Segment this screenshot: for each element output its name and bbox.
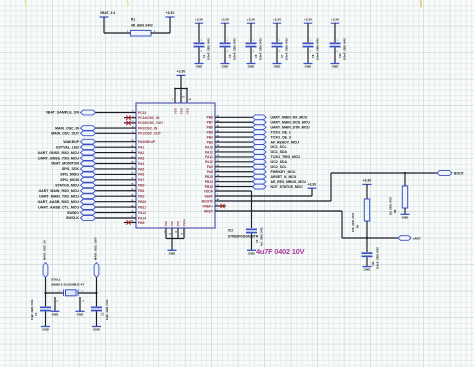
svg-text:STATUS_MCU: STATUS_MCU bbox=[55, 184, 79, 188]
svg-text:UART_MAIN_DTR_MCU: UART_MAIN_DTR_MCU bbox=[271, 125, 310, 129]
wire bbox=[96, 179, 137, 181]
port TCXO_OE_1 bbox=[253, 130, 267, 135]
svg-text:SWCLK: SWCLK bbox=[66, 216, 79, 220]
svg-text:PA0/WKUP: PA0/WKUP bbox=[138, 140, 156, 144]
svg-text:+3.3V: +3.3V bbox=[304, 17, 313, 21]
ground bbox=[247, 63, 256, 65]
svg-text:PA11: PA11 bbox=[205, 155, 213, 159]
svg-text:C7: C7 bbox=[280, 54, 284, 58]
wire bbox=[251, 233, 253, 250]
svg-text:C3: C3 bbox=[255, 239, 259, 243]
wire bbox=[366, 257, 368, 266]
svg-text:I2C1_SCL: I2C1_SCL bbox=[271, 145, 287, 149]
wire bbox=[96, 173, 137, 175]
svg-text:SPI1_SCK: SPI1_SCK bbox=[62, 167, 80, 171]
svg-text:+3.3V: +3.3V bbox=[221, 17, 230, 21]
svg-text:GND: GND bbox=[402, 215, 410, 219]
svg-text:TCXO_TRIG_MCU: TCXO_TRIG_MCU bbox=[271, 155, 301, 159]
svg-text:SPI1_MOSI: SPI1_MOSI bbox=[60, 178, 79, 182]
pin VSS group bbox=[165, 228, 167, 239]
svg-text:PA14: PA14 bbox=[138, 216, 146, 220]
svg-text:PB13: PB13 bbox=[205, 185, 213, 189]
wire bbox=[276, 23, 278, 42]
svg-text:GND: GND bbox=[274, 65, 282, 69]
svg-text:I2C2_SDA: I2C2_SDA bbox=[271, 160, 288, 164]
svg-text:PA3: PA3 bbox=[138, 156, 144, 160]
svg-text:PA5: PA5 bbox=[138, 167, 144, 171]
svg-text:PB0: PB0 bbox=[138, 184, 145, 188]
wire bbox=[215, 156, 253, 158]
svg-text:I2C1_SDA: I2C1_SDA bbox=[271, 150, 288, 154]
svg-text:WAKEUP: WAKEUP bbox=[63, 140, 79, 144]
pin VDD 48 bbox=[186, 89, 188, 104]
wire bbox=[215, 146, 253, 148]
ground bbox=[51, 310, 60, 312]
wire bbox=[96, 141, 137, 143]
ground bbox=[363, 266, 372, 268]
wire bbox=[366, 221, 368, 252]
svg-text:VDD: VDD bbox=[174, 107, 178, 114]
artifact mark bbox=[24, 0, 27, 7]
svg-text:GND: GND bbox=[248, 251, 256, 255]
wire bbox=[198, 23, 200, 42]
svg-text:SPI1_MISO: SPI1_MISO bbox=[60, 173, 79, 177]
svg-text:MAIN_OSC_OUT: MAIN_OSC_OUT bbox=[51, 132, 80, 136]
wire bbox=[96, 217, 137, 219]
capacitor C5 100nF bbox=[220, 43, 231, 45]
svg-text:VBAT: VBAT bbox=[204, 194, 213, 198]
svg-text:+3.3V: +3.3V bbox=[247, 17, 256, 21]
wire bbox=[404, 173, 406, 186]
svg-text:100nF_GEN_0402: 100nF_GEN_0402 bbox=[315, 38, 319, 60]
wire bbox=[96, 132, 137, 134]
svg-text:PB3: PB3 bbox=[207, 140, 214, 144]
svg-text:PF1/OSC_OUT: PF1/OSC_OUT bbox=[138, 132, 161, 136]
wire bbox=[307, 47, 309, 63]
port PWRKEY_MCU bbox=[253, 169, 267, 174]
ground bbox=[247, 249, 256, 251]
svg-text:C10: C10 bbox=[338, 53, 342, 58]
port ARSET_N_MCU bbox=[253, 174, 267, 179]
svg-text:C4: C4 bbox=[202, 54, 206, 58]
port UART_MAIN_RX_MCU bbox=[253, 115, 267, 120]
svg-text:+3.3V: +3.3V bbox=[308, 182, 318, 186]
svg-text:C8: C8 bbox=[311, 54, 315, 58]
wire bbox=[276, 47, 278, 63]
wire bbox=[96, 146, 137, 148]
svg-text:PA15: PA15 bbox=[205, 145, 213, 149]
svg-text:UART_GNSS_RXD_MCU: UART_GNSS_RXD_MCU bbox=[38, 151, 80, 155]
svg-text:TCXO_OE_3: TCXO_OE_3 bbox=[271, 135, 291, 139]
svg-text:GND: GND bbox=[248, 65, 256, 69]
ground bbox=[331, 63, 340, 65]
svg-text:PB5: PB5 bbox=[207, 130, 214, 134]
svg-text:MAIN_OSC_IN: MAIN_OSC_IN bbox=[43, 240, 47, 260]
artifact mark bbox=[419, 0, 422, 8]
svg-text:PB14: PB14 bbox=[205, 180, 213, 184]
wire bbox=[169, 17, 171, 33]
svg-text:GND: GND bbox=[332, 65, 340, 69]
wire bbox=[198, 47, 200, 63]
svg-text:R4: R4 bbox=[355, 224, 359, 228]
ground bbox=[41, 326, 50, 328]
svg-text:SWDIO: SWDIO bbox=[67, 211, 79, 215]
port nRST bbox=[398, 236, 411, 241]
svg-text:+3.3V: +3.3V bbox=[363, 179, 373, 183]
wire bbox=[96, 195, 137, 197]
svg-text:GND: GND bbox=[52, 312, 60, 316]
wire bbox=[96, 278, 98, 307]
wire bbox=[215, 181, 253, 183]
port AF_READY_MCU bbox=[253, 140, 267, 145]
wire bbox=[215, 186, 253, 188]
svg-text:PB7: PB7 bbox=[207, 121, 214, 125]
wire bbox=[80, 292, 97, 294]
svg-text:VREF+: VREF+ bbox=[202, 204, 213, 208]
svg-text:NOT_STATUS_MCU: NOT_STATUS_MCU bbox=[271, 185, 304, 189]
svg-text:C11: C11 bbox=[371, 261, 375, 266]
svg-text:ABM8 3-16.000MHZ-4Y: ABM8 3-16.000MHZ-4Y bbox=[51, 282, 85, 286]
svg-text:100nF_GEN_0402: 100nF_GEN_0402 bbox=[232, 38, 236, 60]
svg-text:UART_MAIN_RX_MCU: UART_MAIN_RX_MCU bbox=[271, 116, 308, 120]
svg-text:GND: GND bbox=[42, 328, 50, 332]
wire bbox=[215, 210, 342, 212]
svg-text:PF0/OSC_IN: PF0/OSC_IN bbox=[138, 126, 158, 130]
svg-text:+3.3V: +3.3V bbox=[331, 17, 340, 21]
svg-text:GND: GND bbox=[169, 251, 177, 255]
svg-text:PA2: PA2 bbox=[138, 151, 144, 155]
svg-text:EXTVAL_LED: EXTVAL_LED bbox=[56, 145, 79, 149]
capacitor C8 100nF bbox=[303, 43, 314, 45]
capacitor C1 10pF bbox=[40, 307, 51, 309]
svg-text:GND: GND bbox=[222, 65, 230, 69]
ground bbox=[401, 213, 410, 215]
svg-text:C2: C2 bbox=[100, 312, 104, 316]
svg-text:TCXO_OE_1: TCXO_OE_1 bbox=[271, 130, 291, 134]
pin VDD 24 bbox=[180, 89, 182, 104]
svg-text:4u7_GEN_0402: 4u7_GEN_0402 bbox=[260, 227, 264, 246]
pin VDD 1 bbox=[174, 89, 176, 104]
svg-text:GND: GND bbox=[93, 328, 101, 332]
wire bbox=[215, 200, 331, 202]
wire bbox=[250, 23, 252, 42]
svg-text:VDD: VDD bbox=[186, 107, 190, 114]
wire bbox=[215, 136, 253, 138]
wire bbox=[96, 190, 137, 192]
svg-text:PA4: PA4 bbox=[138, 162, 144, 166]
svg-text:UART_MAIN_DCD_MCU: UART_MAIN_DCD_MCU bbox=[271, 120, 311, 124]
resistor R8 bbox=[402, 186, 407, 208]
svg-text:GND: GND bbox=[364, 268, 372, 272]
resistor R1 bbox=[131, 30, 152, 36]
wire bbox=[215, 151, 253, 153]
svg-text:AE_RES_MBUS_MCU: AE_RES_MBUS_MCU bbox=[271, 180, 307, 184]
wire bbox=[334, 47, 336, 63]
wire bbox=[215, 161, 253, 163]
svg-text:0R_GEN_0402: 0R_GEN_0402 bbox=[131, 24, 153, 28]
svg-text:VSSA: VSSA bbox=[182, 219, 186, 226]
svg-text:AF_READY_MCU: AF_READY_MCU bbox=[271, 140, 300, 144]
svg-text:10pF_GEN_0402: 10pF_GEN_0402 bbox=[105, 299, 109, 320]
resistor R4 bbox=[364, 199, 369, 221]
wire bbox=[96, 168, 137, 170]
svg-text:C5: C5 bbox=[228, 54, 232, 58]
port AE_RES_MBUS_MCU bbox=[253, 179, 267, 184]
wire bbox=[215, 171, 253, 173]
wire bbox=[96, 163, 137, 165]
no-connect X on PC14 bbox=[124, 117, 136, 119]
svg-text:MAIN_OSC_IN: MAIN_OSC_IN bbox=[55, 126, 79, 130]
capacitor C11 100nF bbox=[362, 252, 373, 254]
wire bbox=[215, 195, 312, 197]
wire bbox=[215, 121, 253, 123]
svg-text:nRST: nRST bbox=[413, 237, 421, 241]
wire bbox=[96, 157, 137, 159]
ground bbox=[76, 310, 85, 312]
svg-text:+3.3V: +3.3V bbox=[177, 70, 187, 74]
capacitor C3 4u7 bbox=[246, 229, 257, 231]
svg-text:10K_GEN_0402: 10K_GEN_0402 bbox=[351, 212, 355, 232]
svg-text:PA10: PA10 bbox=[205, 160, 213, 164]
svg-text:VBAT_SAMPLE_ON: VBAT_SAMPLE_ON bbox=[46, 111, 80, 115]
svg-text:PB4: PB4 bbox=[207, 135, 214, 139]
wire bbox=[224, 47, 226, 63]
svg-text:PB1: PB1 bbox=[138, 189, 145, 193]
no-connect X on PC15 bbox=[124, 122, 136, 124]
port BOOT bbox=[437, 171, 452, 176]
svg-text:PB10: PB10 bbox=[138, 200, 146, 204]
ground bbox=[304, 63, 313, 65]
svg-text:R1: R1 bbox=[131, 18, 135, 22]
svg-text:UART_MAIN_TXD_MCU: UART_MAIN_TXD_MCU bbox=[39, 194, 79, 198]
svg-text:GND: GND bbox=[77, 312, 85, 316]
svg-text:IC2: IC2 bbox=[228, 228, 233, 232]
svg-text:ARSET_N_MCU: ARSET_N_MCU bbox=[271, 175, 297, 179]
port I2C1_SCL bbox=[253, 145, 267, 150]
wire bbox=[215, 126, 253, 128]
svg-text:MAIN_OSC_OUT: MAIN_OSC_OUT bbox=[94, 237, 98, 260]
svg-text:PC15/OSC_OUT: PC15/OSC_OUT bbox=[138, 121, 163, 125]
wire bbox=[96, 206, 137, 208]
wire bbox=[307, 23, 309, 42]
no-connect X on VREF+ bbox=[215, 205, 226, 207]
capacitor C2 10pF bbox=[91, 307, 102, 309]
wire bbox=[45, 278, 47, 307]
wire bbox=[45, 311, 47, 326]
svg-text:I2C2_SCL: I2C2_SCL bbox=[271, 165, 287, 169]
wire bbox=[215, 190, 252, 192]
svg-text:UART_AASB_RXD_MCU: UART_AASB_RXD_MCU bbox=[38, 200, 80, 204]
svg-text:C6: C6 bbox=[254, 54, 258, 58]
wire bbox=[96, 311, 98, 326]
ground bbox=[221, 63, 230, 65]
svg-text:VBAT_3.3: VBAT_3.3 bbox=[100, 11, 115, 15]
svg-text:PA9: PA9 bbox=[207, 165, 213, 169]
svg-text:GND: GND bbox=[305, 65, 313, 69]
wire bbox=[366, 184, 368, 199]
ground bbox=[195, 63, 204, 65]
svg-text:100nF_GEN_0402: 100nF_GEN_0402 bbox=[284, 38, 288, 60]
svg-text:C1: C1 bbox=[34, 312, 38, 316]
port I2C2_SCL bbox=[253, 164, 267, 169]
svg-text:PB11: PB11 bbox=[138, 205, 146, 209]
wire bbox=[96, 201, 137, 203]
svg-text:100nF_GEN_0402: 100nF_GEN_0402 bbox=[342, 38, 346, 60]
op-amp U1 body: microcontroller IC2 rectangle bbox=[136, 103, 215, 228]
port TCXO_OE_3 bbox=[253, 135, 267, 140]
svg-text:100nF_GEN_0402: 100nF_GEN_0402 bbox=[258, 38, 262, 60]
wire shield pin 4 bbox=[79, 297, 81, 311]
svg-text:BOOT0: BOOT0 bbox=[202, 199, 214, 203]
svg-text:UART_GNSS_TXD_MCU: UART_GNSS_TXD_MCU bbox=[38, 156, 79, 160]
svg-text:100nF_GEN_0402: 100nF_GEN_0402 bbox=[206, 38, 210, 60]
svg-text:PA13: PA13 bbox=[138, 211, 146, 215]
svg-text:+3.3V: +3.3V bbox=[166, 11, 176, 15]
svg-text:10pF_GEN_0402: 10pF_GEN_0402 bbox=[30, 299, 34, 320]
svg-text:+3.3V: +3.3V bbox=[195, 17, 204, 21]
svg-text:VSS: VSS bbox=[164, 221, 168, 227]
svg-text:GND: GND bbox=[196, 65, 204, 69]
svg-text:PB6: PB6 bbox=[207, 126, 214, 130]
wire bbox=[96, 212, 137, 214]
svg-text:BOOT: BOOT bbox=[454, 172, 465, 176]
svg-text:VDD: VDD bbox=[180, 107, 184, 114]
svg-text:100nF_GEN_0402: 100nF_GEN_0402 bbox=[375, 247, 379, 269]
wire bbox=[96, 112, 137, 114]
port UART_MAIN_DCD_MCU bbox=[253, 120, 267, 125]
svg-text:VDDA: VDDA bbox=[204, 189, 214, 193]
svg-text:PWRKEY_MCU: PWRKEY_MCU bbox=[271, 170, 296, 174]
svg-text:PB9: PB9 bbox=[138, 221, 145, 225]
wire shield pin 2 bbox=[54, 297, 56, 311]
svg-text:PB8: PB8 bbox=[207, 116, 214, 120]
svg-text:VBAT_MONITOR: VBAT_MONITOR bbox=[51, 162, 79, 166]
wire bbox=[166, 238, 184, 240]
svg-text:UART_AASB_CTL_MCU: UART_AASB_CTL_MCU bbox=[38, 205, 79, 209]
svg-text:R8: R8 bbox=[393, 209, 397, 213]
svg-text:+3.3V: +3.3V bbox=[273, 17, 282, 21]
port TCXO_TRIG_MCU bbox=[253, 155, 267, 160]
artifact mark bbox=[126, 0, 129, 7]
wire bbox=[180, 75, 182, 88]
svg-text:UART_MAIN_RXD_MCU: UART_MAIN_RXD_MCU bbox=[39, 189, 80, 193]
svg-text:PA6: PA6 bbox=[138, 173, 144, 177]
wire bbox=[224, 23, 226, 42]
svg-text:XTAL1: XTAL1 bbox=[51, 278, 61, 282]
svg-text:4u7F 0402 10V: 4u7F 0402 10V bbox=[256, 247, 305, 256]
svg-text:PA7: PA7 bbox=[138, 178, 144, 182]
svg-text:PB15: PB15 bbox=[205, 175, 213, 179]
capacitor C10 100nF bbox=[330, 43, 341, 45]
wire bbox=[250, 47, 252, 63]
wire bbox=[96, 127, 137, 129]
junction bbox=[404, 172, 406, 174]
svg-text:STM32F042G6U6TR: STM32F042G6U6TR bbox=[228, 234, 259, 238]
svg-text:PC14/OSC_IN: PC14/OSC_IN bbox=[138, 116, 160, 120]
svg-text:PA12: PA12 bbox=[205, 150, 213, 154]
port I2C1_SDA bbox=[253, 150, 267, 155]
wire bbox=[215, 116, 253, 118]
svg-text:PB2: PB2 bbox=[138, 195, 145, 199]
svg-text:NRST: NRST bbox=[204, 209, 213, 213]
capacitor C7 100nF bbox=[272, 43, 283, 45]
svg-text:PA8: PA8 bbox=[207, 170, 213, 174]
junction bbox=[366, 237, 368, 239]
svg-text:1M_GEN_0402: 1M_GEN_0402 bbox=[389, 197, 393, 215]
wire bbox=[215, 166, 253, 168]
wire bbox=[46, 292, 63, 294]
ground bbox=[168, 249, 177, 251]
ground bbox=[92, 326, 101, 328]
port UART_MAIN_DTR_MCU bbox=[253, 125, 267, 130]
capacitor C6 100nF bbox=[246, 43, 257, 45]
ground bbox=[273, 63, 282, 65]
svg-text:PC13: PC13 bbox=[138, 111, 146, 115]
wire bbox=[334, 23, 336, 42]
port NOT_STATUS_MCU bbox=[253, 184, 267, 189]
wire bbox=[215, 131, 253, 133]
port I2C2_SDA bbox=[253, 159, 267, 164]
wire bbox=[96, 184, 137, 186]
capacitor C4 100nF bbox=[194, 43, 205, 45]
svg-text:VSS: VSS bbox=[170, 221, 174, 227]
wire bbox=[103, 17, 105, 33]
svg-text:PA1: PA1 bbox=[138, 145, 144, 149]
svg-text:VSS: VSS bbox=[176, 221, 180, 227]
wire bbox=[404, 208, 406, 214]
wire bbox=[215, 141, 253, 143]
wire bbox=[215, 176, 253, 178]
wire bbox=[96, 152, 137, 154]
